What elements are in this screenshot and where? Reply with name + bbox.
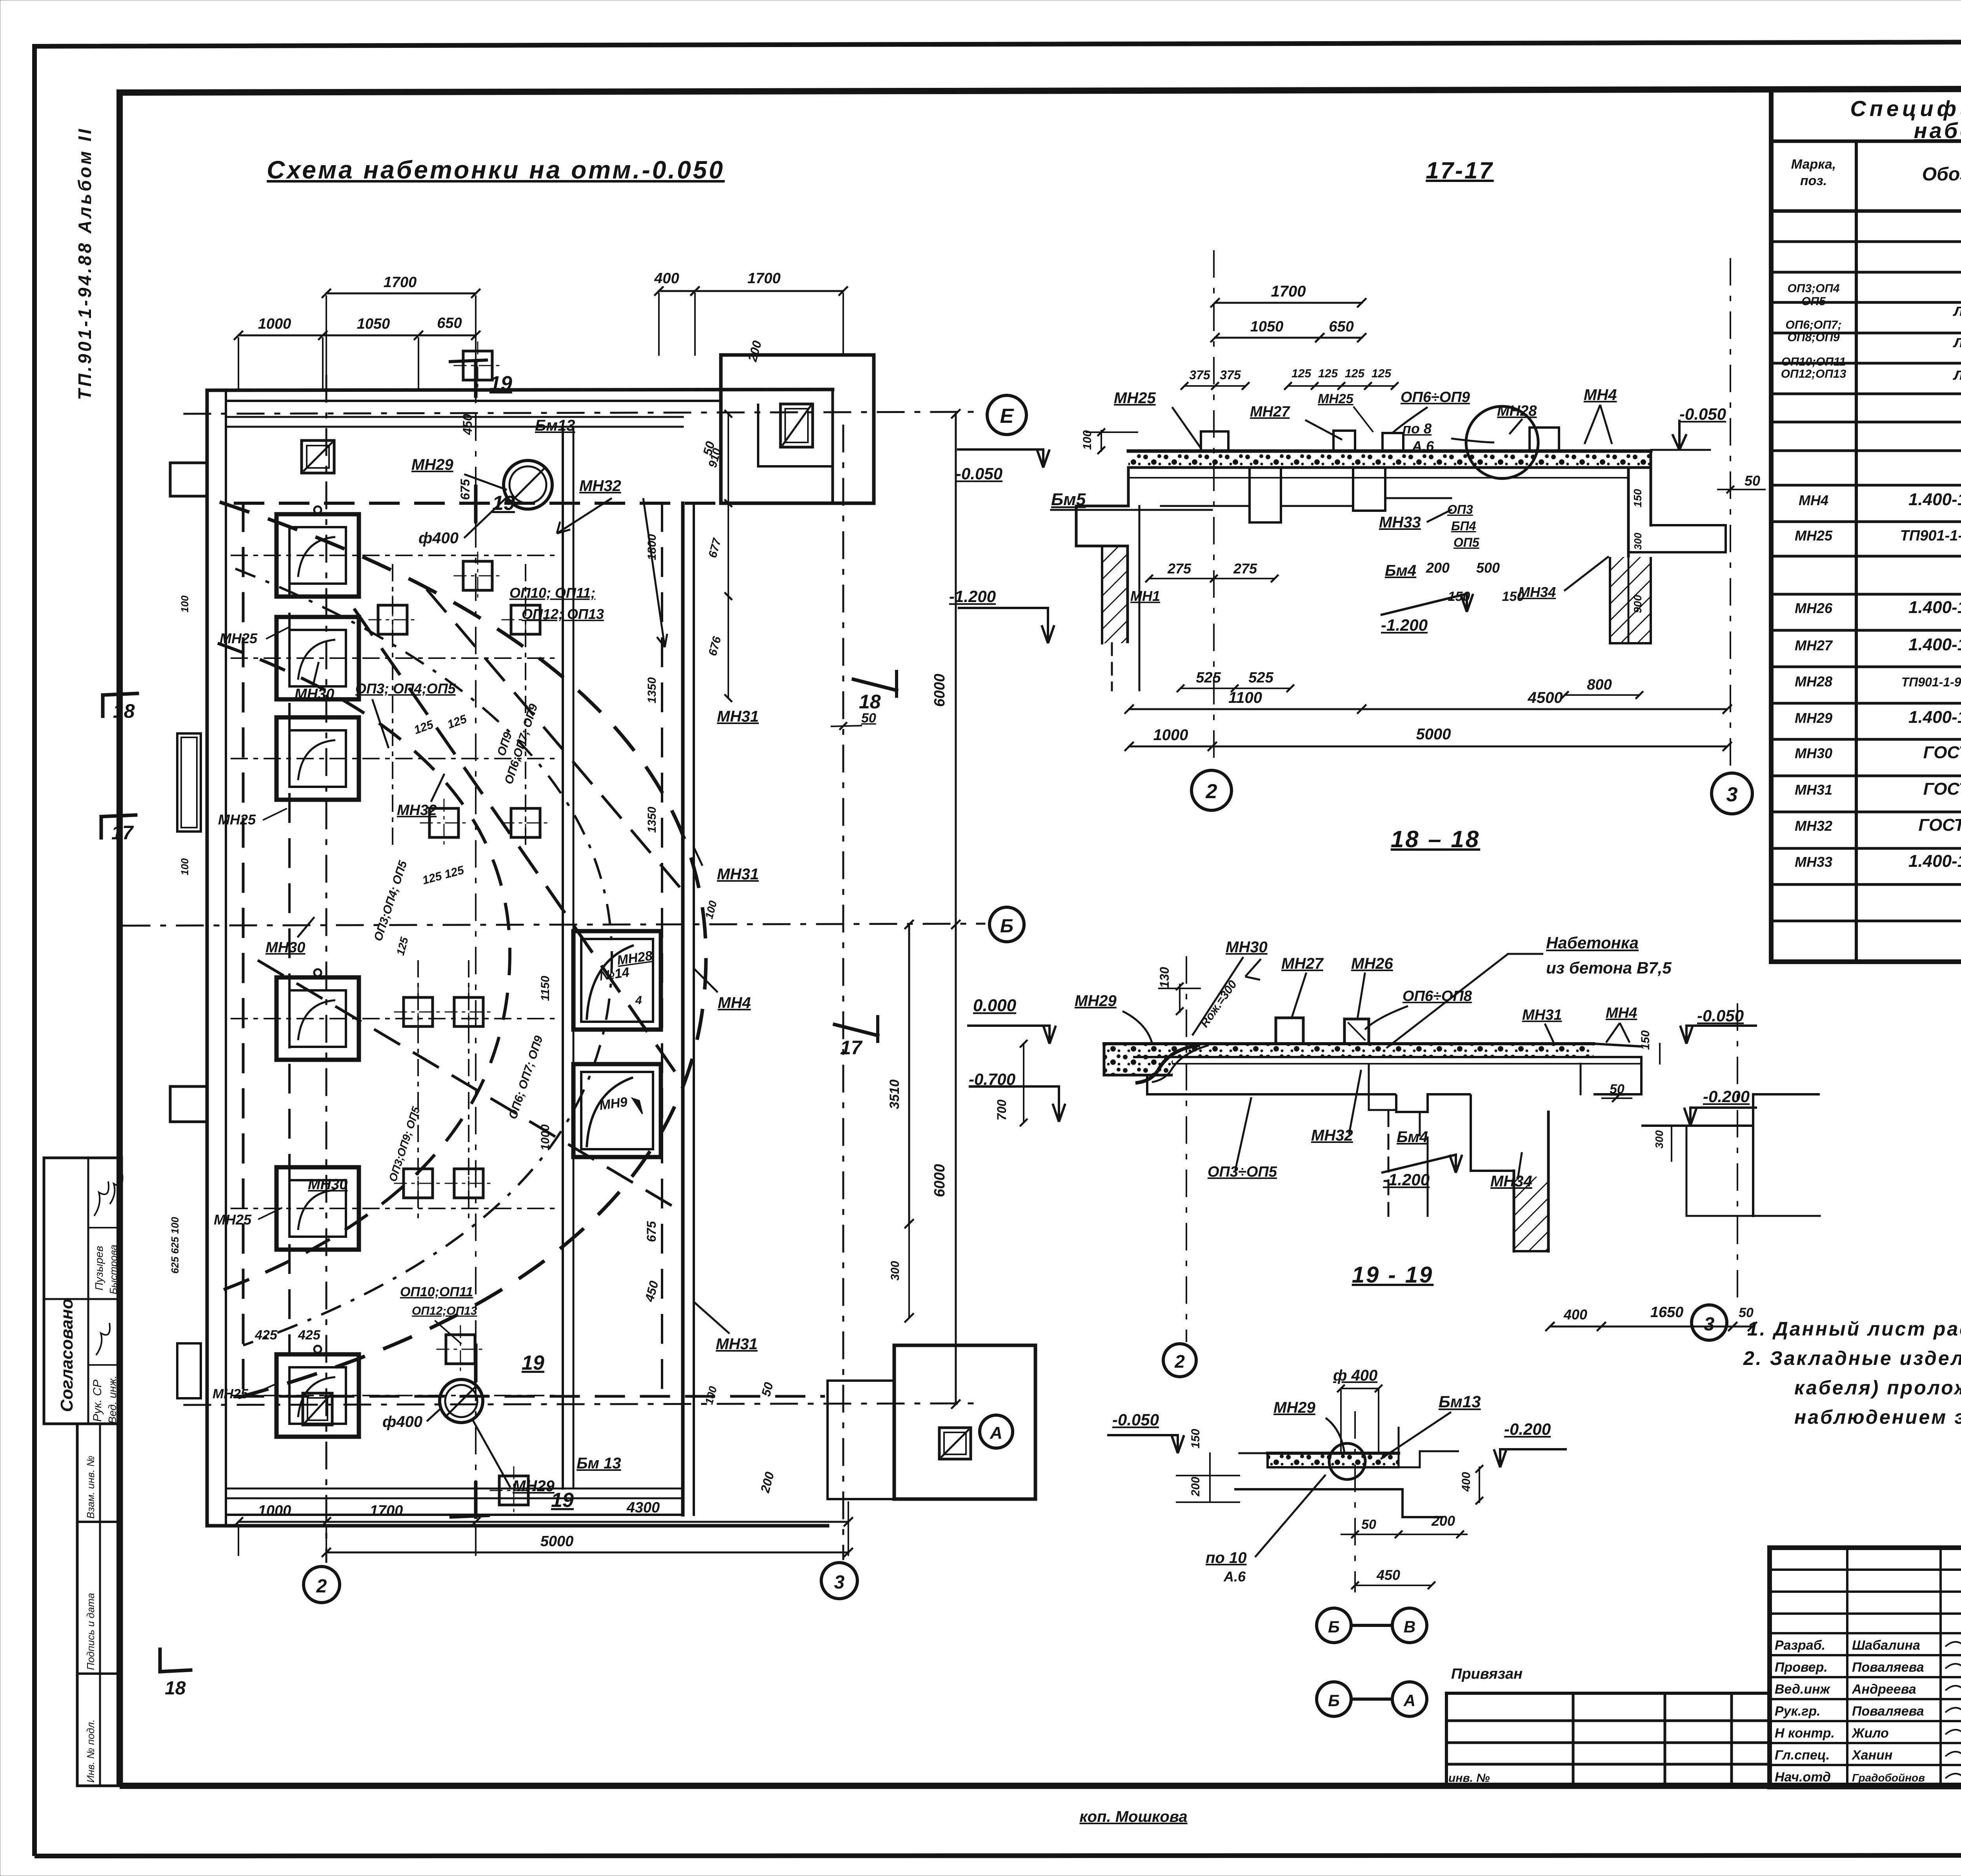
svg-text:ГОСТ 18599-83*: ГОСТ 18599-83* <box>1919 815 1961 835</box>
svg-text:50: 50 <box>861 711 876 726</box>
svg-text:1050: 1050 <box>1250 318 1284 335</box>
embedded pad OP #11 <box>446 1335 475 1364</box>
panel MN28 upper <box>573 931 661 1030</box>
s18 axis circle 2 <box>1163 1344 1196 1377</box>
svg-text:Инв. № подл.: Инв. № подл. <box>85 1720 96 1783</box>
svg-text:МН4: МН4 <box>1606 1005 1637 1021</box>
svg-text:МН28: МН28 <box>1497 403 1537 419</box>
s17 axis 2 <box>1213 251 1215 769</box>
s17 dim row 1100 4500 <box>1129 708 1727 710</box>
embedded pad OP #4 <box>463 561 492 590</box>
embedded pad OP #2 <box>511 605 540 634</box>
svg-text:МН30: МН30 <box>1226 939 1268 956</box>
svg-text:-1.200: -1.200 <box>1381 616 1428 634</box>
s18 pit verticals <box>1580 1064 1582 1094</box>
plan slab dashed edge bottom <box>235 1395 824 1398</box>
svg-text:наблюдением электромонтажнико: наблюдением электромонтажников. <box>1794 1406 1961 1428</box>
svg-text:МН27: МН27 <box>1281 955 1324 972</box>
svg-text:МН29: МН29 <box>1075 992 1117 1010</box>
svg-text:1150: 1150 <box>539 975 552 1001</box>
svg-text:А.6: А.6 <box>1223 1568 1246 1585</box>
pad MN25 #6 <box>277 1354 359 1437</box>
pad MN25 #2 <box>277 617 359 699</box>
svg-text:Быстрова: Быстрова <box>107 1245 119 1294</box>
svg-text:19: 19 <box>522 1352 544 1374</box>
svg-text:Вед.инж: Вед.инж <box>1775 1682 1831 1697</box>
svg-text:ОП3: ОП3 <box>1447 502 1473 517</box>
corner fixture top-right <box>780 404 813 447</box>
svg-text:1.400-15.81.550-06: 1.400-15.81.550-06 <box>1908 490 1961 509</box>
plan axis line 2 <box>326 376 327 1562</box>
privyazan table <box>1446 1692 1770 1695</box>
svg-text:375: 375 <box>1220 368 1241 382</box>
plan axis circles redraw <box>980 1415 1013 1448</box>
svg-text:МН30: МН30 <box>1795 745 1832 761</box>
embedded pad OP #12 <box>499 1476 528 1505</box>
svg-text:Бм13: Бм13 <box>1439 1392 1481 1411</box>
svg-text:МН32: МН32 <box>1795 818 1832 834</box>
svg-text:650: 650 <box>437 315 462 331</box>
svg-text:ТП901-1-94.88-КЖ1.1-ЩП15: ТП901-1-94.88-КЖ1.1-ЩП15 <box>1901 675 1961 689</box>
plan left wall <box>206 390 209 1526</box>
s18 upstand MN27 <box>1276 1018 1303 1044</box>
corner fixture bottom-right <box>939 1428 971 1459</box>
svg-text:МН25: МН25 <box>1114 389 1156 407</box>
s17 upstand MN25r <box>1383 433 1403 451</box>
embedded pad OP #7 <box>404 997 433 1026</box>
svg-text:4: 4 <box>635 994 642 1007</box>
svg-text:200: 200 <box>1189 1477 1202 1497</box>
s18 bottom dims <box>1550 1326 1752 1328</box>
svg-text:100: 100 <box>179 595 191 613</box>
plan bottom dim row2 <box>326 1552 848 1554</box>
svg-text:ф 400: ф 400 <box>1333 1367 1377 1384</box>
svg-text:МН34: МН34 <box>1518 584 1556 600</box>
svg-text:1700: 1700 <box>370 1503 403 1519</box>
svg-text:425: 425 <box>298 1328 321 1343</box>
s19 legend circles <box>1317 1608 1351 1643</box>
svg-text:Шабалина: Шабалина <box>1852 1638 1920 1653</box>
svg-text:по 10: по 10 <box>1206 1549 1246 1567</box>
svg-text:ОП10; ОП11;: ОП10; ОП11; <box>509 585 595 601</box>
svg-text:18: 18 <box>165 1678 186 1699</box>
plan slab dashed edge top <box>235 502 874 505</box>
svg-text:2. Закладные изделия МН30;МН: 2. Закладные изделия МН30;МН31;МН32 (для… <box>1743 1347 1961 1369</box>
svg-text:Спецификация к схеме распо: Спецификация к схеме расположения <box>1850 96 1961 121</box>
svg-text:375: 375 <box>1189 368 1211 382</box>
s18 pipe bend MN30 <box>1135 1045 1200 1083</box>
svg-text:МН33: МН33 <box>1379 514 1421 531</box>
plan dim extension lines bottom <box>238 1526 239 1555</box>
plan top wall <box>207 389 833 390</box>
plan dashed inner vertical <box>288 569 291 1353</box>
s17 mid profile <box>1161 505 1250 507</box>
pad MN25 #1 <box>277 514 359 597</box>
svg-text:450: 450 <box>460 414 475 435</box>
plan right wall dims 910 677 676 <box>728 414 729 698</box>
svg-text:Б: Б <box>1000 916 1013 937</box>
svg-text:450: 450 <box>1376 1567 1400 1583</box>
svg-text:275: 275 <box>1233 560 1257 577</box>
svg-text:1000: 1000 <box>258 316 291 332</box>
svg-text:Е: Е <box>1000 405 1014 428</box>
plan right wall <box>681 503 685 1515</box>
svg-text:675: 675 <box>458 479 472 500</box>
svg-text:-0.050: -0.050 <box>956 464 1002 483</box>
svg-text:МН29: МН29 <box>1273 1399 1315 1416</box>
svg-text:4500: 4500 <box>1528 689 1563 706</box>
svg-text:МН31: МН31 <box>1522 1007 1562 1023</box>
embedded pad OP #6 <box>511 808 540 837</box>
plan bottom dim row1 <box>238 1521 848 1523</box>
svg-text:ОП6÷ОП9: ОП6÷ОП9 <box>1401 389 1470 406</box>
svg-text:МН31: МН31 <box>1795 782 1832 798</box>
plan axis circle B <box>990 907 1024 942</box>
svg-text:300: 300 <box>1632 533 1644 550</box>
svg-text:500: 500 <box>1476 560 1500 576</box>
svg-text:18: 18 <box>859 691 881 713</box>
svg-text:Андреева: Андреева <box>1852 1682 1916 1697</box>
svg-text:ф400: ф400 <box>418 530 458 547</box>
svg-text:150: 150 <box>1632 489 1644 507</box>
svg-text:-0.050: -0.050 <box>1112 1410 1159 1429</box>
svg-text:МН4: МН4 <box>1584 386 1617 404</box>
svg-text:200: 200 <box>1426 560 1450 576</box>
s17 pit 1 <box>1250 468 1281 522</box>
svg-text:17-17: 17-17 <box>1426 157 1493 184</box>
section cut 18 right <box>853 679 897 690</box>
svg-text:5000: 5000 <box>1416 726 1451 743</box>
svg-text:Поваляева: Поваляева <box>1852 1660 1924 1675</box>
svg-text:МН1: МН1 <box>1130 588 1160 604</box>
embedded pad OP #5 <box>429 808 458 837</box>
plan right dim 6000 lower <box>955 924 957 1404</box>
svg-text:125: 125 <box>1345 367 1365 380</box>
svg-text:кабеля) проложить в набетонке: кабеля) проложить в набетонке на отм. -0… <box>1794 1377 1961 1399</box>
svg-text:ОП12; ОП13: ОП12; ОП13 <box>522 606 604 622</box>
pad MN25 #5 <box>277 1167 359 1250</box>
svg-text:19 - 19: 19 - 19 <box>1352 1262 1434 1288</box>
svg-text:1000: 1000 <box>258 1503 291 1519</box>
svg-text:Взам. инв. №: Взам. инв. № <box>85 1456 96 1519</box>
plan top dim row1 <box>326 293 476 295</box>
svg-text:2: 2 <box>1206 780 1217 803</box>
svg-text:2: 2 <box>1174 1351 1185 1372</box>
s17 dim row 1000 5000 <box>1129 746 1727 748</box>
svg-text:инв. №: инв. № <box>1448 1772 1490 1785</box>
svg-text:Подпись и дата: Подпись и дата <box>85 1593 96 1670</box>
s17 detail circle MN28 <box>1466 406 1538 479</box>
plan dashed contour right <box>661 503 663 1396</box>
svg-text:50: 50 <box>1745 473 1760 489</box>
left stamp approval block <box>44 1158 122 1424</box>
plan top dim row2 <box>238 335 476 337</box>
s17 left lower dashes <box>1111 643 1113 690</box>
section cut 19 bottom <box>474 1345 478 1381</box>
plan right dim 3510 <box>908 924 910 1224</box>
s17 dims 1050 650 <box>1215 337 1320 339</box>
svg-text:лист 5: лист 5 <box>1953 364 1961 384</box>
pipe circle f400 top <box>504 460 552 509</box>
svg-text:300: 300 <box>1653 1130 1665 1148</box>
embedded pad OP #3 <box>463 351 492 380</box>
svg-text:ТП.901-1-94.88 Альбом II: ТП.901-1-94.88 Альбом II <box>75 127 95 400</box>
svg-text:МН4: МН4 <box>1799 492 1828 508</box>
svg-text:из бетона В7,5: из бетона В7,5 <box>1546 959 1672 977</box>
s18 profile under <box>1147 1075 1396 1094</box>
s18 pit MN34 <box>1369 1064 1396 1110</box>
svg-text:2: 2 <box>316 1576 327 1597</box>
svg-text:МН29: МН29 <box>1795 710 1832 726</box>
svg-text:-0.050: -0.050 <box>1697 1006 1744 1025</box>
svg-text:по 8: по 8 <box>1403 420 1432 437</box>
svg-text:1700: 1700 <box>748 270 781 287</box>
svg-text:Схема набетонки на отм.-0.050: Схема набетонки на отм.-0.050 <box>267 156 725 184</box>
svg-text:1000: 1000 <box>539 1124 552 1150</box>
embedded pad OP #10 <box>454 1169 483 1198</box>
plan axis circle 2 <box>304 1567 340 1603</box>
svg-text:0.000: 0.000 <box>973 996 1017 1015</box>
plan axis circle 3 <box>821 1563 857 1599</box>
svg-text:Рук.гр.: Рук.гр. <box>1775 1704 1821 1719</box>
svg-text:ГОСТ 3262-75*: ГОСТ 3262-75* <box>1923 743 1961 762</box>
corner fixture bottom-left <box>303 1393 332 1425</box>
svg-text:1.400-15.81.130-19: 1.400-15.81.130-19 <box>1908 635 1961 654</box>
plan centerline 19 <box>475 361 477 1518</box>
svg-text:лист 5: лист 5 <box>1953 332 1961 351</box>
svg-text:Рук. СР: Рук. СР <box>91 1379 104 1422</box>
svg-text:700: 700 <box>995 1099 1009 1121</box>
plan top inner band <box>226 416 683 418</box>
svg-text:150: 150 <box>1639 1030 1652 1050</box>
svg-text:коп. Мошкова: коп. Мошкова <box>1079 1808 1187 1825</box>
svg-text:19: 19 <box>492 492 515 515</box>
s18 pit hatch <box>1515 1177 1548 1251</box>
s18 axis 3 <box>1737 1004 1738 1302</box>
svg-text:набетонки на отм. 0.000: набетонки на отм. 0.000 <box>1914 118 1961 143</box>
svg-text:275: 275 <box>1167 560 1192 577</box>
svg-text:50: 50 <box>1361 1517 1376 1532</box>
svg-text:400: 400 <box>1460 1472 1473 1492</box>
svg-text:Ханин: Ханин <box>1851 1748 1892 1763</box>
svg-text:400: 400 <box>1563 1306 1587 1323</box>
svg-text:300: 300 <box>889 1261 902 1281</box>
svg-text:Привязан: Привязан <box>1451 1666 1523 1682</box>
svg-text:ТП901-1-94.88-М8.00.01: ТП901-1-94.88-М8.00.01 <box>1900 528 1961 544</box>
svg-text:1700: 1700 <box>384 274 417 291</box>
s18 upstand MN26 <box>1344 1019 1369 1044</box>
svg-text:МН25: МН25 <box>1795 528 1833 544</box>
s17 dims top 1700 <box>1215 302 1362 304</box>
excavation dashed arc outer <box>220 502 706 1398</box>
svg-text:МН34: МН34 <box>1490 1173 1532 1190</box>
dashed diagonal 3 <box>259 961 682 1212</box>
svg-text:МН25: МН25 <box>220 630 258 646</box>
s19 slab band <box>1268 1453 1399 1467</box>
section cut 18 bottom-left <box>158 1649 162 1672</box>
svg-text:МН29: МН29 <box>411 456 453 473</box>
plan axis line A <box>184 1403 975 1405</box>
svg-text:ОП3÷ОП5: ОП3÷ОП5 <box>1208 1164 1277 1180</box>
svg-text:Бм13: Бм13 <box>535 417 575 434</box>
corner fixture top-left <box>302 440 334 473</box>
svg-text:А: А <box>990 1423 1002 1443</box>
svg-text:Бм5: Бм5 <box>1051 490 1086 509</box>
svg-text:Б: Б <box>1328 1691 1340 1710</box>
svg-text:1350: 1350 <box>646 806 659 833</box>
s17 upstand schit <box>1530 428 1559 451</box>
pipe circle f400 bottom <box>440 1379 483 1423</box>
section cut 17 left <box>101 815 136 817</box>
svg-text:17: 17 <box>111 822 134 844</box>
svg-text:ОП6;ОП7;: ОП6;ОП7; <box>1785 318 1841 331</box>
svg-text:-0.200: -0.200 <box>1703 1087 1750 1106</box>
svg-text:Вед. инж.: Вед. инж. <box>106 1376 118 1424</box>
s17 axis circle 3 <box>1712 773 1752 814</box>
svg-text:-0.050: -0.050 <box>1679 405 1726 423</box>
s17 dims 375 125 <box>1184 385 1246 387</box>
svg-text:Поваляева: Поваляева <box>1852 1704 1924 1719</box>
excavation dashed arc inner <box>218 643 510 1290</box>
s19 pipe circle <box>1329 1443 1365 1479</box>
svg-text:МН26: МН26 <box>1795 600 1833 616</box>
svg-text:1100: 1100 <box>1228 689 1262 706</box>
svg-text:-1.200: -1.200 <box>1383 1170 1430 1189</box>
svg-text:Гл.спец.: Гл.спец. <box>1775 1748 1830 1763</box>
svg-text:1000: 1000 <box>1153 726 1188 744</box>
plan axis circle E <box>987 395 1026 435</box>
svg-text:ОП5: ОП5 <box>1801 295 1826 308</box>
svg-text:-1.200: -1.200 <box>949 587 996 606</box>
plan bottom wall <box>207 1524 828 1528</box>
svg-text:3: 3 <box>1726 783 1738 806</box>
svg-text:1.400-15.81.130-30: 1.400-15.81.130-30 <box>1908 598 1961 617</box>
svg-text:1700: 1700 <box>1271 283 1306 300</box>
svg-text:525: 525 <box>1196 670 1221 686</box>
svg-text:4300: 4300 <box>626 1499 660 1516</box>
plan lower-right block <box>894 1345 1035 1499</box>
svg-text:1650: 1650 <box>1650 1304 1684 1321</box>
s17 axis 3 <box>1730 259 1731 771</box>
svg-text:525: 525 <box>1248 670 1273 686</box>
s17 slab soffit <box>1128 477 1628 479</box>
s17 right ledge <box>1651 524 1726 526</box>
title block <box>1770 1548 1961 1787</box>
section cut 17 right <box>835 1024 878 1035</box>
svg-text:425: 425 <box>255 1328 278 1343</box>
plan right dim 6000 upper <box>955 414 957 924</box>
svg-text:Градобойнов: Градобойнов <box>1852 1772 1925 1784</box>
svg-text:Провер.: Провер. <box>1775 1660 1828 1675</box>
svg-text:ф400: ф400 <box>382 1413 422 1430</box>
s17 upstand left <box>1201 431 1228 451</box>
svg-text:Набетонка: Набетонка <box>1546 933 1639 952</box>
svg-text:125: 125 <box>1292 367 1312 380</box>
svg-text:МН25: МН25 <box>214 1212 252 1228</box>
svg-text:БП4: БП4 <box>1451 519 1476 533</box>
plan left protrusions <box>170 1086 207 1122</box>
svg-text:поз.: поз. <box>1800 173 1827 188</box>
svg-text:3510: 3510 <box>887 1079 902 1109</box>
svg-text:МН31: МН31 <box>717 866 759 883</box>
pad MN25 #4 <box>277 977 359 1060</box>
svg-text:МН31: МН31 <box>717 708 759 725</box>
svg-text:МН30: МН30 <box>266 939 305 956</box>
svg-text:МН32: МН32 <box>579 477 621 495</box>
svg-text:200: 200 <box>1431 1513 1455 1529</box>
s18 left block <box>1104 1044 1173 1075</box>
svg-text:ОП3; ОП4;ОП5: ОП3; ОП4;ОП5 <box>355 681 456 697</box>
svg-text:Бм 13: Бм 13 <box>577 1455 621 1472</box>
svg-text:ОП10;ОП11: ОП10;ОП11 <box>1781 355 1846 368</box>
svg-text:А: А <box>1403 1691 1415 1710</box>
svg-text:400: 400 <box>654 270 679 287</box>
plan axis line E <box>184 412 982 414</box>
embedded pad OP #8 <box>454 997 483 1026</box>
svg-text:МН29: МН29 <box>513 1478 555 1495</box>
pad leader dots MN30 <box>314 506 321 513</box>
svg-text:125: 125 <box>1372 367 1392 380</box>
svg-text:ОП12;ОП13: ОП12;ОП13 <box>412 1305 477 1317</box>
svg-text:3: 3 <box>834 1572 845 1593</box>
svg-text:900: 900 <box>1632 595 1644 613</box>
svg-text:МН32: МН32 <box>1311 1127 1353 1144</box>
dashed diagonal 1 <box>355 610 682 1083</box>
svg-text:МН30: МН30 <box>295 686 334 702</box>
panel MN28 lower <box>573 1064 661 1157</box>
svg-text:6000: 6000 <box>931 674 948 707</box>
svg-text:лист 5: лист 5 <box>1953 300 1961 320</box>
svg-text:125: 125 <box>1318 367 1338 380</box>
svg-text:МН30: МН30 <box>308 1176 347 1193</box>
section cut 18 left <box>103 693 137 695</box>
svg-text:МН26: МН26 <box>1351 955 1393 972</box>
plan interior wall <box>562 427 564 1488</box>
svg-text:50: 50 <box>1739 1305 1754 1320</box>
svg-text:1. Данный лист рассматриват: 1. Данный лист рассматривать совместно с… <box>1747 1318 1961 1340</box>
svg-text:100: 100 <box>179 858 191 875</box>
svg-text:Согласовано: Согласовано <box>57 1299 76 1412</box>
svg-text:Б: Б <box>1328 1618 1340 1636</box>
svg-text:Бм4: Бм4 <box>1385 562 1416 579</box>
svg-text:МН31: МН31 <box>716 1336 758 1353</box>
svg-text:МН28: МН28 <box>1795 673 1832 690</box>
s17 axis circle 2 <box>1192 770 1232 810</box>
svg-text:МН27: МН27 <box>1795 637 1833 653</box>
svg-text:18: 18 <box>113 700 135 722</box>
plan dash-dot column lines <box>392 565 393 851</box>
svg-text:1350: 1350 <box>646 677 659 703</box>
svg-text:1050: 1050 <box>357 316 390 332</box>
plan bottom inner band <box>226 1488 683 1490</box>
svg-text:Пузырев: Пузырев <box>93 1246 105 1290</box>
svg-text:675: 675 <box>644 1221 659 1242</box>
s17 left profile <box>1076 468 1128 643</box>
svg-text:50: 50 <box>1610 1082 1624 1097</box>
embedded pad OP #1 <box>378 605 407 634</box>
left edge fixtures <box>177 733 201 832</box>
svg-text:ОП5: ОП5 <box>1453 535 1480 550</box>
embedded pad OP #9 <box>404 1169 433 1198</box>
svg-text:МН4: МН4 <box>718 994 751 1012</box>
s18 right step <box>1594 1057 1641 1094</box>
s18 axis 2 <box>1186 957 1187 1341</box>
plan axis line 3 <box>842 426 844 1559</box>
plan upper-right block <box>721 355 874 503</box>
svg-text:100: 100 <box>1081 430 1094 450</box>
svg-text:МН32: МН32 <box>397 802 437 819</box>
plan dim extension lines top <box>238 338 239 390</box>
